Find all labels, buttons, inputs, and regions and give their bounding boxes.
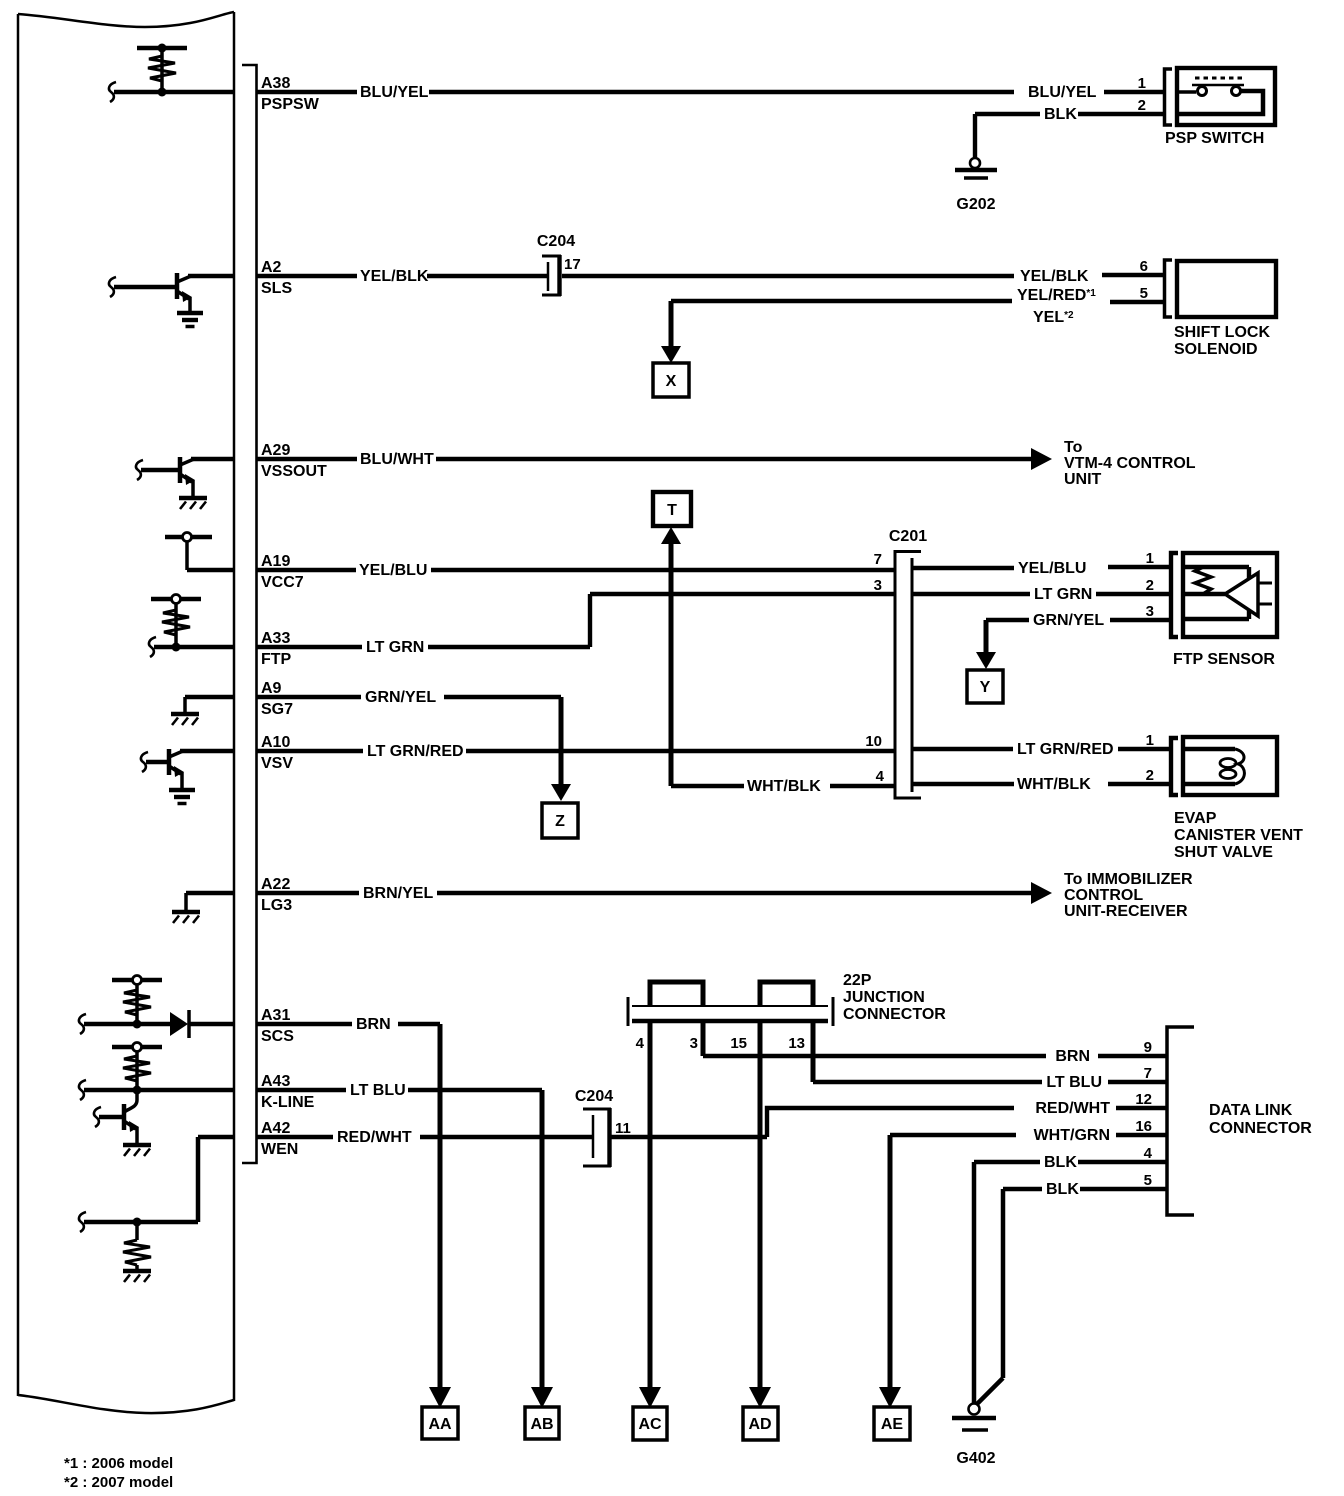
svg-text:LT BLU: LT BLU — [1046, 1074, 1102, 1091]
svg-text:BLU/YEL: BLU/YEL — [360, 84, 429, 101]
svg-text:Z: Z — [555, 813, 565, 830]
junction connector 22P — [628, 972, 946, 1052]
pin A10 VSV — [261, 734, 293, 772]
svg-text:WHT/BLK: WHT/BLK — [1017, 776, 1091, 793]
pin A19 VCC7 — [261, 553, 304, 591]
svg-text:*1 : 2006 model: *1 : 2006 model — [64, 1455, 173, 1472]
svg-text:1: 1 — [1146, 732, 1154, 749]
svg-text:LT GRN: LT GRN — [1034, 586, 1092, 603]
svg-text:G202: G202 — [956, 196, 995, 213]
svg-text:A42: A42 — [261, 1120, 290, 1137]
svg-text:10: 10 — [865, 733, 882, 750]
svg-text:LT GRN: LT GRN — [366, 639, 424, 656]
pin A9 SG7 — [261, 680, 293, 718]
pin A31 SCS — [261, 1007, 294, 1045]
svg-text:UNIT: UNIT — [1064, 471, 1102, 488]
wire BLK DLC pin 4 — [974, 1145, 1167, 1404]
resistor (K-LINE pull-up) — [112, 1043, 162, 1091]
svg-text:BRN: BRN — [356, 1016, 391, 1033]
connector C204 pin 11 — [575, 1088, 631, 1167]
svg-text:PSPSW: PSPSW — [261, 96, 320, 113]
SG7 internal ground — [185, 697, 233, 713]
wire BRN/YEL (A22) to immobilizer — [256, 871, 1193, 920]
svg-text:JUNCTION: JUNCTION — [843, 989, 925, 1006]
node X arrow — [661, 301, 681, 363]
svg-text:3: 3 — [690, 1035, 698, 1052]
svg-text:YEL/BLU: YEL/BLU — [359, 562, 427, 579]
svg-text:C201: C201 — [889, 528, 927, 545]
svg-text:7: 7 — [1144, 1065, 1152, 1082]
svg-text:VTM-4 CONTROL: VTM-4 CONTROL — [1064, 455, 1196, 472]
svg-text:LT GRN/RED: LT GRN/RED — [1017, 741, 1114, 758]
svg-text:AA: AA — [428, 1416, 452, 1433]
svg-text:FTP: FTP — [261, 651, 292, 668]
svg-text:CONTROL: CONTROL — [1064, 887, 1143, 904]
transistor Q-VSSOUT — [136, 457, 233, 497]
svg-text:To IMMOBILIZER: To IMMOBILIZER — [1064, 871, 1193, 888]
svg-text:EVAP: EVAP — [1174, 810, 1217, 827]
svg-text:K-LINE: K-LINE — [261, 1094, 315, 1111]
ground (LG3) — [172, 912, 200, 923]
pin A42 WEN — [261, 1120, 298, 1158]
svg-text:CONNECTOR: CONNECTOR — [1209, 1120, 1312, 1137]
svg-text:UNIT-RECEIVER: UNIT-RECEIVER — [1064, 903, 1188, 920]
node AD box — [743, 1407, 778, 1440]
svg-text:11: 11 — [615, 1120, 631, 1137]
svg-text:2: 2 — [1146, 767, 1154, 784]
svg-text:A10: A10 — [261, 734, 290, 751]
wire WHT/BLK — [671, 767, 1171, 795]
svg-text:AB: AB — [530, 1416, 553, 1433]
svg-text:3: 3 — [874, 577, 882, 594]
node T box — [653, 492, 691, 526]
svg-text:YEL/BLK: YEL/BLK — [1020, 268, 1089, 285]
svg-text:1: 1 — [1138, 75, 1146, 92]
svg-text:X: X — [666, 373, 677, 390]
svg-text:2: 2 — [1146, 577, 1154, 594]
wire LT GRN/RED (A10) — [256, 732, 1171, 760]
svg-text:SG7: SG7 — [261, 701, 293, 718]
svg-text:2: 2 — [1138, 97, 1146, 114]
svg-text:BRN: BRN — [1055, 1048, 1090, 1065]
svg-text:BLU/WHT: BLU/WHT — [360, 451, 434, 468]
wire K-LINE internal — [79, 1080, 233, 1100]
ground (VSV emitter) — [169, 790, 195, 804]
resistor (WEN) — [123, 1222, 151, 1270]
svg-text:YEL/RED*1: YEL/RED*1 — [1017, 287, 1096, 304]
connector C201 — [889, 528, 927, 798]
wire junction pin 15 column to AD — [749, 1021, 771, 1408]
svg-text:A31: A31 — [261, 1007, 290, 1024]
node AE box — [874, 1407, 910, 1440]
wire BRN (A31) — [256, 1016, 451, 1408]
svg-text:A2: A2 — [261, 259, 282, 276]
svg-text:5: 5 — [1144, 1172, 1152, 1189]
node T arrow (up) — [661, 527, 681, 786]
svg-text:17: 17 — [564, 256, 581, 273]
node Y box — [967, 670, 1003, 703]
svg-text:15: 15 — [730, 1035, 747, 1052]
wire FTP internal — [149, 637, 233, 657]
svg-text:3: 3 — [1146, 603, 1154, 620]
wire RED/WHT (A42) — [256, 1091, 1167, 1146]
svg-text:GRN/YEL: GRN/YEL — [1033, 612, 1104, 629]
ground G202 — [955, 158, 997, 213]
svg-text:YEL/BLU: YEL/BLU — [1018, 560, 1086, 577]
svg-text:7: 7 — [874, 551, 882, 568]
svg-text:FTP SENSOR: FTP SENSOR — [1173, 651, 1275, 668]
transistor Q-K-LINE — [94, 1090, 139, 1144]
svg-text:SCS: SCS — [261, 1028, 294, 1045]
transistor Q-SLS — [109, 273, 233, 312]
svg-text:BRN/YEL: BRN/YEL — [363, 885, 433, 902]
svg-text:A38: A38 — [261, 75, 290, 92]
wire YEL/BLU (A19) — [256, 550, 1171, 579]
svg-text:SOLENOID: SOLENOID — [1174, 341, 1258, 358]
svg-text:AE: AE — [881, 1416, 904, 1433]
svg-text:LT GRN/RED: LT GRN/RED — [367, 743, 464, 760]
wire LT GRN jog to C201 pin 3 — [590, 577, 1171, 647]
svg-text:Y: Y — [980, 679, 991, 696]
svg-text:9: 9 — [1144, 1039, 1152, 1056]
svg-text:PSP SWITCH: PSP SWITCH — [1165, 130, 1264, 147]
svg-text:BLK: BLK — [1046, 1181, 1079, 1198]
svg-text:VCC7: VCC7 — [261, 574, 304, 591]
svg-text:A19: A19 — [261, 553, 290, 570]
pin A38 PSPSW — [261, 75, 320, 113]
wire WHT/GRN to AE — [879, 1118, 1167, 1408]
ground G402 — [952, 1404, 996, 1468]
pin A33 FTP — [261, 630, 292, 668]
svg-text:WHT/GRN: WHT/GRN — [1034, 1127, 1110, 1144]
svg-text:DATA LINK: DATA LINK — [1209, 1102, 1293, 1119]
wire BLK to G202 — [975, 97, 1164, 158]
ground (WEN resistor) — [123, 1271, 151, 1282]
pin A22 LG3 — [261, 876, 292, 914]
ground (K-LINE emitter) — [123, 1145, 151, 1156]
resistor (FTP internal) — [151, 595, 201, 648]
pin A29 VSSOUT — [261, 442, 327, 480]
svg-text:G402: G402 — [956, 1450, 995, 1467]
svg-text:RED/WHT: RED/WHT — [337, 1129, 412, 1146]
LG3 internal ground — [186, 893, 233, 911]
svg-text:AC: AC — [638, 1416, 662, 1433]
ground (SLS emitter) — [177, 313, 203, 327]
transistor Q-VSV — [141, 749, 233, 789]
wire WEN internal — [79, 1137, 233, 1232]
wire PSPSW internal — [109, 82, 233, 102]
svg-text:RED/WHT: RED/WHT — [1035, 1100, 1110, 1117]
data link connector — [1167, 1027, 1312, 1215]
wire LT GRN (A33) — [256, 639, 590, 656]
wire YEL/BLK (A2) — [256, 258, 1164, 285]
wire BLK DLC pin 5 — [977, 1172, 1167, 1404]
svg-text:To: To — [1064, 439, 1083, 456]
svg-text:A22: A22 — [261, 876, 290, 893]
wire BLU/WHT (A29) to VTM-4 — [256, 439, 1196, 488]
svg-text:1: 1 — [1146, 550, 1154, 567]
svg-text:VSV: VSV — [261, 755, 293, 772]
shift lock solenoid — [1165, 260, 1277, 358]
svg-text:A29: A29 — [261, 442, 290, 459]
svg-text:WEN: WEN — [261, 1141, 298, 1158]
wire LT BLU junction pin 13 to DLC pin 7 — [813, 1021, 1167, 1091]
wire GRN/YEL right (to Y) — [976, 603, 1171, 669]
svg-text:12: 12 — [1135, 1091, 1152, 1108]
wire junction pin 4 column to AC — [639, 1021, 661, 1408]
connector C204 pin 17 — [537, 233, 581, 296]
svg-text:BLK: BLK — [1044, 1154, 1077, 1171]
svg-text:4: 4 — [876, 768, 885, 785]
svg-text:13: 13 — [788, 1035, 805, 1052]
svg-text:22P: 22P — [843, 972, 872, 989]
node X box — [653, 363, 689, 397]
ECM connector bracket — [242, 65, 257, 1163]
node AC box — [633, 1407, 667, 1440]
svg-text:6: 6 — [1140, 258, 1148, 275]
svg-text:SLS: SLS — [261, 280, 292, 297]
resistor (PSPSW pull-up) — [137, 44, 187, 93]
node AB box — [525, 1407, 559, 1439]
wire SCS internal + diode — [79, 1010, 233, 1038]
node Z box — [542, 803, 578, 838]
FTP sensor — [1171, 553, 1277, 668]
svg-text:CANISTER VENT: CANISTER VENT — [1174, 827, 1303, 844]
svg-text:T: T — [667, 502, 677, 519]
ground (VSSOUT emitter) — [179, 498, 207, 509]
svg-text:GRN/YEL: GRN/YEL — [365, 689, 436, 706]
wire LT BLU (A43) — [256, 1082, 553, 1408]
svg-text:VSSOUT: VSSOUT — [261, 463, 327, 480]
pin A43 K-LINE — [261, 1073, 315, 1111]
svg-text:LT BLU: LT BLU — [350, 1082, 406, 1099]
svg-text:4: 4 — [636, 1035, 645, 1052]
svg-text:BLU/YEL: BLU/YEL — [1028, 84, 1097, 101]
svg-text:C204: C204 — [537, 233, 575, 250]
wire BRN junction pin 3 to DLC pin 9 — [703, 1021, 1167, 1065]
VCC7 internal tap — [165, 533, 233, 571]
svg-text:BLK: BLK — [1044, 106, 1077, 123]
svg-text:CONNECTOR: CONNECTOR — [843, 1006, 946, 1023]
svg-text:A9: A9 — [261, 680, 282, 697]
svg-text:A43: A43 — [261, 1073, 290, 1090]
svg-text:5: 5 — [1140, 285, 1148, 302]
ground (SG7) — [171, 714, 199, 725]
svg-text:C204: C204 — [575, 1088, 613, 1105]
svg-text:LG3: LG3 — [261, 897, 292, 914]
resistor (SCS pull-up) — [112, 976, 162, 1025]
footnotes — [64, 1455, 173, 1491]
svg-text:16: 16 — [1135, 1118, 1152, 1135]
wire BLU/YEL (A38) — [256, 75, 1164, 101]
svg-text:WHT/BLK: WHT/BLK — [747, 778, 821, 795]
svg-text:AD: AD — [748, 1416, 771, 1433]
pin A2 SLS — [261, 259, 292, 297]
wire YEL/RED*1 YEL*2 — [671, 285, 1164, 326]
wire GRN/YEL (A9) — [256, 689, 571, 801]
EVAP canister vent shut valve — [1171, 737, 1303, 861]
ECM/PCM torn-edge box — [18, 12, 234, 1413]
svg-text:SHIFT LOCK: SHIFT LOCK — [1174, 324, 1270, 341]
svg-text:*2 : 2007 model: *2 : 2007 model — [64, 1474, 173, 1491]
svg-text:YEL/BLK: YEL/BLK — [360, 268, 429, 285]
PSP switch — [1165, 68, 1276, 147]
svg-text:A33: A33 — [261, 630, 290, 647]
node AA box — [422, 1407, 458, 1439]
svg-text:4: 4 — [1144, 1145, 1153, 1162]
svg-text:SHUT VALVE: SHUT VALVE — [1174, 844, 1273, 861]
